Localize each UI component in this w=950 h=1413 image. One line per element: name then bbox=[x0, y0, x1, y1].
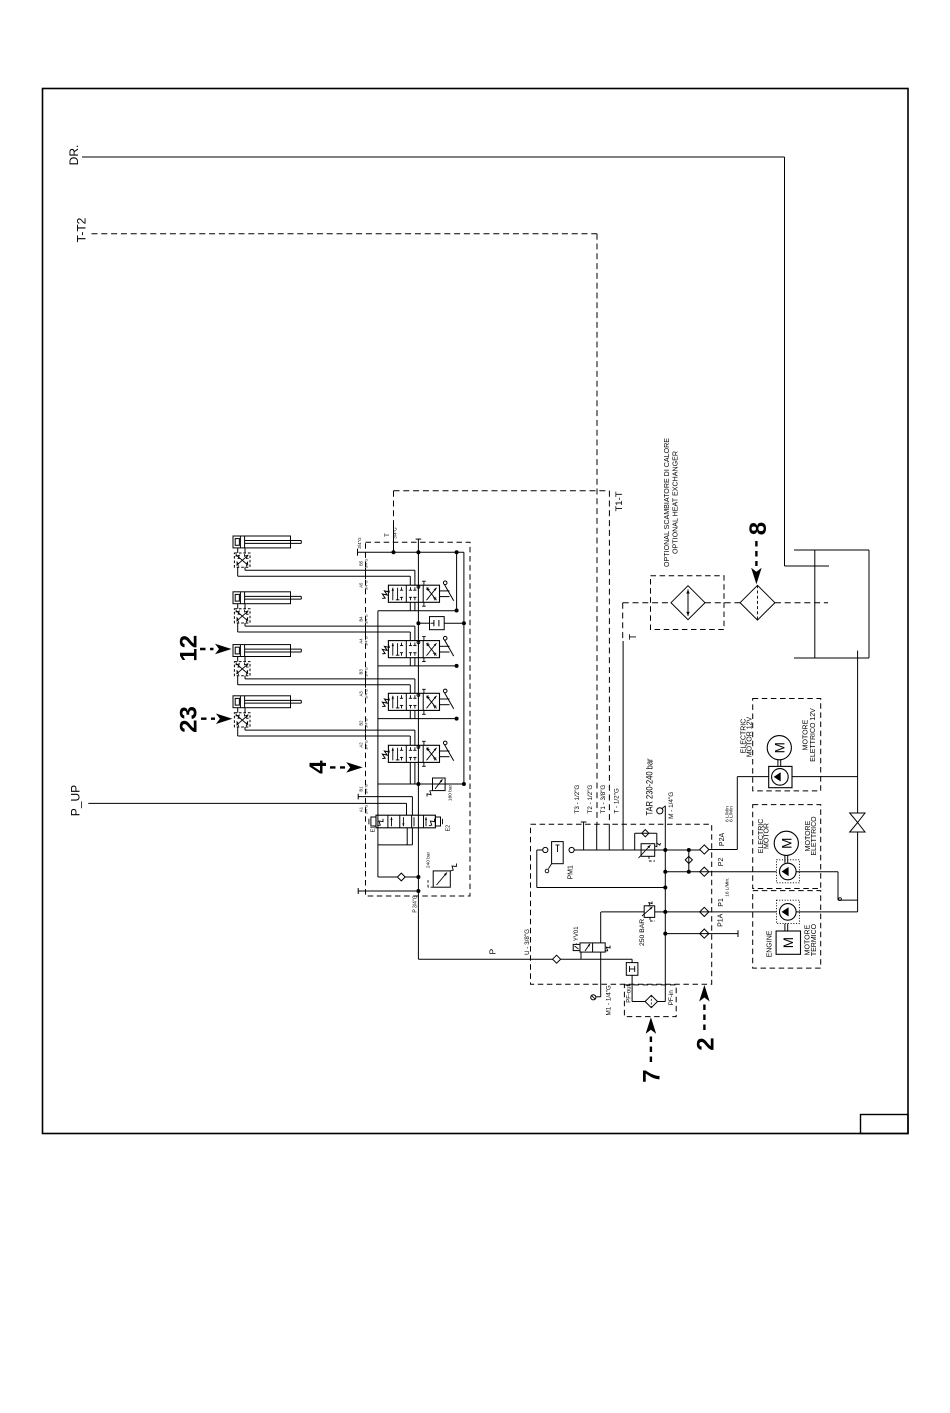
svg-text:3/4"G: 3/4"G bbox=[365, 718, 369, 728]
svg-text:6 L/Min: 6 L/Min bbox=[729, 806, 735, 822]
svg-text:T3 - 1/2"G: T3 - 1/2"G bbox=[574, 785, 581, 814]
svg-text:E2: E2 bbox=[446, 825, 452, 832]
svg-text:P1A: P1A bbox=[718, 913, 725, 927]
svg-text:ELETTRICO 12V: ELETTRICO 12V bbox=[810, 708, 817, 762]
svg-text:M: M bbox=[781, 937, 796, 948]
svg-text:T: T bbox=[385, 533, 391, 537]
svg-text:A3: A3 bbox=[359, 691, 364, 697]
svg-text:240 bar: 240 bar bbox=[426, 851, 432, 868]
svg-text:OPTIONAL HEAT EXCHANGER: OPTIONAL HEAT EXCHANGER bbox=[673, 451, 680, 554]
svg-text:3/4"G: 3/4"G bbox=[365, 558, 369, 568]
svg-text:E1: E1 bbox=[371, 826, 377, 833]
svg-text:P_UP: P_UP bbox=[69, 785, 83, 816]
svg-text:16 L/Min.: 16 L/Min. bbox=[725, 878, 730, 897]
svg-text:P 3/4"G: P 3/4"G bbox=[413, 895, 419, 912]
svg-text:3/4"G: 3/4"G bbox=[393, 527, 398, 539]
svg-text:T: T bbox=[628, 634, 639, 640]
svg-text:M: M bbox=[779, 838, 794, 849]
svg-text:MOTOR: MOTOR bbox=[764, 823, 771, 849]
svg-text:P: P bbox=[488, 949, 498, 955]
svg-text:TAR 230-240 bar: TAR 230-240 bar bbox=[645, 759, 656, 816]
svg-text:8: 8 bbox=[745, 522, 772, 535]
svg-text:P2A: P2A bbox=[719, 833, 726, 847]
svg-text:ENGINE: ENGINE bbox=[767, 930, 774, 957]
svg-text:3/4"G: 3/4"G bbox=[365, 784, 369, 794]
svg-text:A2: A2 bbox=[359, 742, 364, 748]
svg-text:3/4"G: 3/4"G bbox=[365, 740, 369, 750]
svg-text:A4: A4 bbox=[359, 638, 364, 644]
svg-text:4: 4 bbox=[305, 760, 332, 774]
svg-text:7: 7 bbox=[639, 1069, 666, 1082]
svg-text:3/4"G: 3/4"G bbox=[365, 805, 369, 815]
svg-text:- YV01: - YV01 bbox=[574, 926, 580, 945]
svg-text:12: 12 bbox=[176, 635, 203, 662]
svg-text:3/4"G: 3/4"G bbox=[365, 667, 369, 677]
svg-text:3/4"G: 3/4"G bbox=[365, 580, 369, 590]
svg-text:M - 1/4"G: M - 1/4"G bbox=[668, 792, 675, 819]
svg-text:B3: B3 bbox=[359, 669, 364, 675]
svg-text:3/4"G: 3/4"G bbox=[365, 689, 369, 699]
svg-text:23: 23 bbox=[176, 706, 203, 733]
svg-text:U - 3/8"G: U - 3/8"G bbox=[524, 929, 531, 955]
svg-text:T - 1/2"G: T - 1/2"G bbox=[614, 788, 621, 813]
svg-text:250 BAR: 250 BAR bbox=[639, 919, 646, 946]
svg-text:ELETTRICO: ELETTRICO bbox=[811, 816, 818, 856]
svg-text:B4: B4 bbox=[359, 616, 364, 622]
svg-text:B5: B5 bbox=[359, 560, 364, 566]
svg-text:B1: B1 bbox=[359, 786, 364, 792]
svg-text:PF-out: PF-out bbox=[627, 984, 633, 1002]
svg-text:MOTORE: MOTORE bbox=[803, 719, 810, 750]
svg-text:3/4"G: 3/4"G bbox=[365, 614, 369, 624]
svg-text:PF-in: PF-in bbox=[668, 990, 675, 1006]
svg-text:TERMICO: TERMICO bbox=[811, 923, 818, 956]
svg-text:OPTIONAL SCAMBIATORE DI CALORE: OPTIONAL SCAMBIATORE DI CALORE bbox=[664, 438, 671, 567]
svg-text:T1 - 3/8"G: T1 - 3/8"G bbox=[600, 785, 607, 814]
svg-text:2: 2 bbox=[693, 1037, 720, 1050]
svg-text:3/4"G: 3/4"G bbox=[357, 537, 362, 549]
svg-text:MOTOR 12V: MOTOR 12V bbox=[747, 717, 754, 758]
svg-text:A5: A5 bbox=[359, 582, 364, 588]
svg-text:T-T2: T-T2 bbox=[75, 217, 89, 242]
svg-text:M1 - 1/4"G: M1 - 1/4"G bbox=[606, 985, 613, 1015]
svg-text:3/4"G: 3/4"G bbox=[365, 636, 369, 646]
svg-text:180 bar: 180 bar bbox=[448, 784, 454, 801]
svg-text:A1: A1 bbox=[359, 806, 364, 812]
svg-text:T1-T: T1-T bbox=[614, 491, 625, 511]
svg-text:M: M bbox=[772, 742, 787, 753]
svg-text:P1: P1 bbox=[718, 898, 725, 907]
svg-text:PM1: PM1 bbox=[568, 865, 575, 880]
svg-text:T2 - 1/2"G: T2 - 1/2"G bbox=[587, 785, 594, 814]
svg-text:P2: P2 bbox=[718, 858, 725, 867]
svg-text:B2: B2 bbox=[359, 720, 364, 726]
svg-text:DR.: DR. bbox=[67, 145, 81, 166]
